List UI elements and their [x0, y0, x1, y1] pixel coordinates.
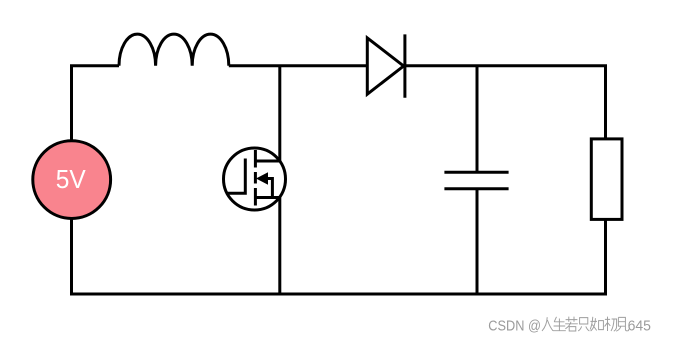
svg-text:5V: 5V: [56, 164, 87, 194]
wire top-left: left rail up and across to inductor: [72, 66, 120, 141]
svg-text:645: 645: [628, 318, 651, 334]
svg-text:CSDN: CSDN: [488, 318, 524, 334]
transistor Q1 body circle: [224, 148, 286, 210]
resistor R1 (load): [591, 139, 622, 220]
transistor Q1 channel dashes: [254, 150, 257, 206]
初: [605, 317, 617, 332]
transistor Q1 source lead: [255, 196, 279, 199]
watermark CSDN: [488, 318, 651, 334]
watermark CJK 人生若只如初见 (simplified strokes): [542, 317, 629, 332]
wire: capacitor bottom branch: [476, 189, 479, 294]
transistor Q1 gate bar and lead: [228, 159, 246, 194]
wire: inductor to diode anode (through MOSFET drain node): [229, 64, 367, 67]
人: [542, 317, 553, 331]
生: [553, 317, 566, 331]
wire: MOSFET drain branch: [278, 66, 281, 161]
inductor L1: [119, 34, 229, 66]
diode D1: [367, 34, 405, 97]
见: [616, 317, 629, 331]
wire: capacitor top branch: [476, 66, 479, 173]
若: [565, 317, 578, 331]
wire: MOSFET source branch: [278, 198, 281, 295]
transistor Q1 drain lead: [255, 160, 279, 163]
只: [578, 318, 589, 331]
voltage source V1 circle: [33, 141, 111, 219]
svg-text:@: @: [528, 318, 541, 334]
如: [590, 317, 603, 331]
transistor Q1 bulk connection: [267, 179, 272, 198]
transistor Q1 arrow: [256, 172, 268, 184]
wire: diode cathode to top-right corner down to resistor: [405, 66, 606, 139]
wire: bottom rail (source bottom, across, up to resistor): [72, 218, 606, 294]
capacitor C1: [444, 172, 508, 189]
